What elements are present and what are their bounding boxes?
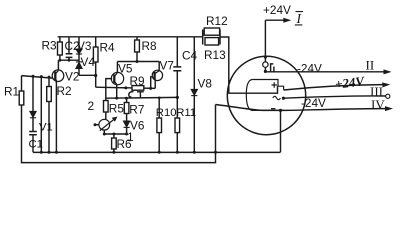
diode V6 <box>124 121 130 127</box>
wire node line R3/C2/V3 <box>60 59 79 61</box>
wire line IV minus24 output <box>216 105 390 111</box>
wiper squiggle R9 <box>129 92 134 98</box>
trimmer potentiometer <box>99 117 117 131</box>
svg-text:R2: R2 <box>57 84 72 98</box>
wire R3 stubs <box>59 37 61 60</box>
resistor R6 <box>112 138 117 149</box>
resistor R5 <box>104 101 109 113</box>
wire R6 stubs <box>113 134 115 152</box>
arrow line III <box>382 82 390 87</box>
wire R7 branch with V6 <box>126 98 128 134</box>
svg-text:C4: C4 <box>182 49 198 63</box>
resistor R1 <box>19 91 24 105</box>
svg-text:V1: V1 <box>39 122 53 134</box>
resistor R13 <box>205 38 219 45</box>
resistor R8 <box>135 40 140 52</box>
resistor R3 <box>58 42 63 55</box>
wire heater to line II <box>265 67 387 71</box>
wire trimmer left stub <box>95 124 99 126</box>
wire trimmer bottom <box>103 130 105 134</box>
capacitor C1 <box>29 132 37 135</box>
wire R5 to trimmer <box>105 112 107 119</box>
R12 R13 side bars <box>203 30 220 45</box>
svg-text:R7: R7 <box>129 103 144 117</box>
svg-text:R11: R11 <box>176 107 196 119</box>
svg-text:C1: C1 <box>29 139 43 151</box>
wire line D emitter rail <box>106 96 178 99</box>
svg-text:R4: R4 <box>100 41 116 55</box>
transistor V2 <box>52 70 64 82</box>
svg-text:V8: V8 <box>198 76 213 90</box>
wire V4 to R4 <box>79 74 96 76</box>
arrow +24V feed <box>283 18 291 23</box>
wire outer return loop <box>22 105 216 163</box>
wire V7 emitter <box>154 80 156 88</box>
wire V1 C1 branch <box>32 76 34 152</box>
diode V1 <box>30 111 36 117</box>
svg-text:+24V: +24V <box>263 3 291 17</box>
resistor R11 <box>175 118 180 133</box>
resistor R4 <box>93 47 98 62</box>
arrow line IV <box>385 106 393 111</box>
wire R4 branch <box>95 37 97 87</box>
wire V3 V4 branch <box>78 37 80 76</box>
svg-text:R8: R8 <box>142 39 158 53</box>
wire ground riser to minus electrode <box>280 110 282 152</box>
wire R2 branch <box>48 77 50 152</box>
wire C2 branch <box>68 37 70 60</box>
wire C4 R11 branch <box>176 37 178 152</box>
wire left input rail <box>22 76 53 79</box>
svg-text:R10: R10 <box>156 107 177 119</box>
svg-text:R9: R9 <box>130 74 145 88</box>
electron gun body <box>246 80 283 111</box>
svg-text:V7: V7 <box>160 59 174 73</box>
svg-text:IV: IV <box>371 97 385 112</box>
wire V7 collector <box>158 62 160 71</box>
wire R1 branch <box>21 76 23 91</box>
svg-text:R3: R3 <box>42 39 58 53</box>
wire V8 branch <box>193 37 195 152</box>
wire R12 R13 right stub down to tube <box>220 37 278 93</box>
capacitor under R9 <box>137 92 144 99</box>
resistor R7 <box>124 103 129 114</box>
diode V8 <box>191 89 197 95</box>
heater filament ticks <box>271 64 274 72</box>
svg-text:+24V: +24V <box>334 73 366 92</box>
wire top rail <box>58 36 203 38</box>
wire line with terminal circle <box>283 96 385 98</box>
wire ground rail <box>33 151 281 153</box>
resistor R9 <box>132 86 144 91</box>
arrow line II <box>384 69 392 74</box>
transistor V7 <box>152 70 162 80</box>
resistor R12 <box>204 28 219 35</box>
svg-text:V2: V2 <box>65 70 79 84</box>
terminal circle line III end <box>386 94 390 98</box>
svg-text:-24V: -24V <box>301 96 326 110</box>
wire line III plus24 output <box>284 85 387 90</box>
svg-text:2: 2 <box>88 99 95 113</box>
heater cathode circle <box>263 62 268 67</box>
wire +24V feed <box>265 20 287 62</box>
wire V5 emitter <box>116 85 118 98</box>
transistor V5 <box>111 72 123 84</box>
modulator squiggle <box>273 96 281 99</box>
svg-text:II: II <box>366 58 375 73</box>
svg-text:R13: R13 <box>204 48 226 62</box>
svg-text:I: I <box>296 11 303 26</box>
capacitor C2 <box>66 54 73 58</box>
resistor R10 <box>157 118 162 133</box>
svg-text:V4: V4 <box>81 55 96 69</box>
wire V5 base and R5 upper <box>106 79 112 101</box>
wire V2 emitter branch <box>55 81 57 152</box>
diode V3 <box>76 49 82 54</box>
wire V7 base stub <box>151 77 153 89</box>
svg-text:R5: R5 <box>109 102 125 116</box>
svg-text:R12: R12 <box>206 14 228 28</box>
wire bottom sub rail <box>104 133 126 135</box>
svg-text:R6: R6 <box>117 137 133 151</box>
plus electrode mark <box>272 82 278 87</box>
svg-text:-24V: -24V <box>297 62 322 76</box>
wire line C R4 to V7 <box>96 87 156 88</box>
wire plain branch <box>40 76 42 152</box>
tube envelope circle <box>227 56 305 134</box>
minus electrode mark <box>271 108 275 110</box>
wire V5 collector <box>116 62 118 73</box>
wire R10 branch <box>158 98 160 152</box>
wire R8 stubs <box>136 37 138 62</box>
wire V5 collector rail <box>117 61 159 63</box>
resistor R2 <box>47 87 52 102</box>
svg-text:R1: R1 <box>4 85 19 99</box>
diode V4 <box>76 62 82 69</box>
wire V2 collector <box>57 60 59 70</box>
svg-text:V3: V3 <box>77 39 92 53</box>
label current I <box>295 11 303 26</box>
capacitor C4 <box>173 67 181 71</box>
